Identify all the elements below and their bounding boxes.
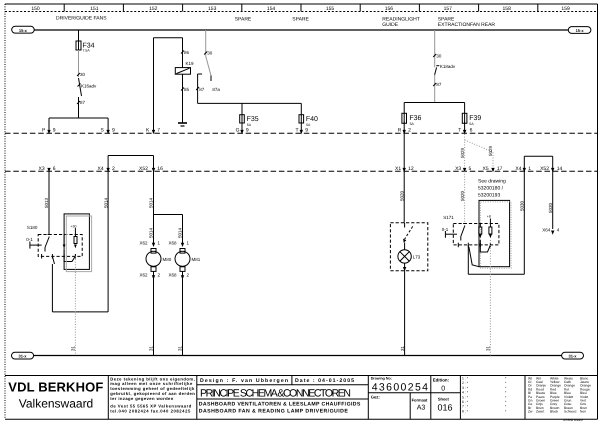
S180 switch arm bbox=[45, 235, 51, 252]
svg-text:K16adv: K16adv bbox=[81, 84, 97, 89]
svg-text:Valkenswaard: Valkenswaard bbox=[19, 397, 93, 411]
svg-text:9: 9 bbox=[246, 127, 249, 133]
svg-text:3 : *: 3 : * bbox=[462, 386, 469, 390]
svg-text:5A: 5A bbox=[469, 122, 474, 126]
wire S171 lamp U link bbox=[480, 240, 490, 252]
node X68 1 bbox=[169, 241, 190, 248]
subtitle lines bbox=[199, 401, 361, 414]
node X1 12 bbox=[395, 166, 414, 172]
svg-text:DASHBOARD VENTILATOREN & LEESL: DASHBOARD VENTILATOREN & LEESLAMP CHAUFF… bbox=[199, 401, 361, 407]
svg-text:15-x: 15-x bbox=[576, 28, 585, 33]
wire splitter to P9 and S9 bbox=[49, 118, 108, 132]
svg-text:X1: X1 bbox=[395, 166, 401, 172]
node S 9 bbox=[101, 127, 116, 134]
svg-text:2: 2 bbox=[112, 166, 115, 172]
svg-text:GUIDE: GUIDE bbox=[382, 22, 399, 28]
wire S171 output to X4-1 bbox=[468, 245, 524, 274]
wire bridge X4-1 to X52-14 bbox=[524, 156, 552, 171]
svg-text:5014: 5014 bbox=[103, 197, 108, 208]
svg-text:0: 0 bbox=[441, 385, 445, 392]
node X3 5 bbox=[455, 166, 471, 172]
svg-text:Formaat: Formaat bbox=[412, 397, 428, 402]
fuse F34 bbox=[76, 41, 95, 53]
wire 5020 X3-5 to S171 dotted bbox=[460, 171, 465, 223]
svg-text:8 : *: 8 : * bbox=[462, 409, 469, 413]
fuse F35 bbox=[240, 115, 259, 127]
S171 actuator bar bbox=[445, 231, 457, 238]
lamp L73 bbox=[398, 250, 421, 263]
svg-text:5013: 5013 bbox=[44, 197, 49, 208]
svg-text:5029: 5029 bbox=[460, 147, 465, 158]
fuse F40 bbox=[299, 115, 318, 127]
svg-text:5A: 5A bbox=[410, 122, 415, 126]
wire bridge X4-2 to X52-16 bbox=[108, 156, 153, 172]
svg-text:7.5A: 7.5A bbox=[83, 49, 91, 53]
svg-text:F36: F36 bbox=[409, 115, 421, 122]
wire 30 (F34 to K16adv) bbox=[77, 50, 86, 77]
node X68 2 bbox=[169, 273, 190, 280]
wire F40 to T9 bbox=[300, 123, 302, 132]
svg-text:X5: X5 bbox=[483, 166, 489, 172]
wire K7 to relay K19 coil bbox=[154, 38, 183, 133]
svg-text:31: 31 bbox=[486, 345, 491, 351]
svg-text:86: 86 bbox=[184, 50, 190, 55]
svg-text:31: 31 bbox=[71, 345, 76, 351]
svg-text:159: 159 bbox=[561, 6, 570, 12]
wire 87 to fuses F35 F40 bbox=[198, 74, 302, 103]
fuse F36 bbox=[402, 113, 422, 126]
svg-text:43600254: 43600254 bbox=[372, 381, 428, 393]
bus wire 15 bbox=[34, 29, 568, 31]
svg-text:Sheet: Sheet bbox=[438, 396, 450, 401]
S171 indicator lamp 2 bbox=[487, 215, 492, 239]
motor M81 bbox=[175, 249, 201, 272]
legal notice bbox=[110, 376, 195, 413]
svg-text:Edition:: Edition: bbox=[433, 377, 450, 382]
relay K19 coil bbox=[175, 61, 194, 74]
svg-text:X4: X4 bbox=[515, 166, 521, 172]
node 31 right connector pill bbox=[562, 352, 584, 359]
svg-text:16: 16 bbox=[157, 166, 163, 172]
svg-text:ter inzage gegeven worden: ter inzage gegeven worden bbox=[110, 396, 173, 401]
svg-text:5014: 5014 bbox=[149, 227, 154, 238]
svg-text:87: 87 bbox=[199, 87, 205, 92]
svg-text:5014: 5014 bbox=[178, 227, 183, 238]
node K 7 bbox=[146, 127, 160, 134]
svg-text:F35: F35 bbox=[247, 116, 259, 123]
lamp L73 box bbox=[390, 223, 427, 271]
pin 87a stub bbox=[211, 76, 220, 92]
svg-text:S171: S171 bbox=[443, 215, 454, 220]
relay K19 contact arm bbox=[206, 56, 211, 81]
wire to fuse F40 bbox=[300, 103, 302, 114]
svg-text:X3: X3 bbox=[455, 166, 461, 172]
svg-text:87: 87 bbox=[80, 100, 86, 105]
bus wire 31 bbox=[34, 355, 562, 357]
svg-text:K19: K19 bbox=[186, 61, 195, 66]
svg-text:DASHBOARD FAN & READING LAMP D: DASHBOARD FAN & READING LAMP DRIVER/GUID… bbox=[199, 409, 349, 415]
wire to M80 bbox=[149, 215, 154, 245]
wire 31 L73 to bus bbox=[400, 271, 405, 356]
svg-text:30: 30 bbox=[80, 72, 86, 77]
svg-text:X68: X68 bbox=[169, 241, 178, 246]
svg-text:SPARE: SPARE bbox=[292, 17, 309, 23]
svg-text:DRIVER/GUIDE FANS: DRIVER/GUIDE FANS bbox=[56, 16, 107, 22]
svg-text:87a: 87a bbox=[212, 87, 220, 92]
svg-text:K18adv: K18adv bbox=[440, 64, 456, 69]
svg-text:G: G bbox=[236, 127, 240, 133]
S180 terminal ticks bbox=[42, 254, 76, 259]
wire 5030 X52-14 to X64-4 bbox=[548, 171, 553, 229]
wire 5030 X4-1 to S171 bbox=[520, 171, 525, 274]
svg-text:15-x: 15-x bbox=[19, 28, 28, 33]
svg-text:Zw: Zw bbox=[528, 410, 533, 414]
wire F39 to T6 bbox=[464, 122, 466, 132]
svg-text:EXTRACTIONFAN REAR: EXTRACTIONFAN REAR bbox=[438, 22, 496, 28]
wire to fuse F35 bbox=[241, 103, 243, 114]
node T 9 bbox=[296, 127, 309, 134]
svg-text:30: 30 bbox=[207, 51, 213, 56]
wire branch to M81 bbox=[154, 215, 183, 245]
svg-text:156: 156 bbox=[385, 6, 394, 12]
svg-text:2: 2 bbox=[408, 127, 411, 133]
svg-text:See drawing: See drawing bbox=[478, 179, 506, 185]
node 15 right connector pill bbox=[568, 27, 591, 34]
design and date bbox=[200, 378, 354, 384]
svg-text:152: 152 bbox=[149, 6, 158, 12]
svg-text:31-x: 31-x bbox=[568, 354, 577, 359]
S171 module box shadow dotted bbox=[481, 202, 512, 268]
node X3 6 bbox=[39, 166, 56, 172]
svg-text:Date : 04-01-2005: Date : 04-01-2005 bbox=[295, 378, 354, 384]
svg-text:1 : *: 1 : * bbox=[462, 377, 469, 381]
svg-text:X64: X64 bbox=[542, 228, 551, 233]
svg-text:9: 9 bbox=[53, 127, 56, 133]
section label SPARE EXTRACTIONFAN REAR bbox=[438, 17, 496, 29]
wire 5029 T6 to X3-5 dotted bbox=[460, 134, 465, 171]
pin 87 terminal bbox=[196, 74, 205, 92]
svg-text:85: 85 bbox=[184, 87, 190, 92]
wire 5029 branch to X5-17 dotted bbox=[465, 140, 494, 171]
svg-text:31: 31 bbox=[178, 345, 183, 351]
svg-text:5014: 5014 bbox=[149, 197, 154, 208]
revision list bbox=[462, 377, 507, 414]
svg-text:X62: X62 bbox=[140, 273, 149, 278]
node P 9 bbox=[42, 127, 56, 134]
svg-text:153: 153 bbox=[208, 6, 217, 12]
wire 5013 X3-6 to S180 bbox=[44, 171, 49, 234]
pin 86 tick bbox=[181, 50, 190, 55]
svg-text:X3: X3 bbox=[39, 166, 45, 172]
svg-text:0-1: 0-1 bbox=[26, 237, 33, 242]
svg-text:6: 6 bbox=[470, 127, 473, 133]
pin 85 wire to ground bbox=[181, 74, 190, 122]
svg-text:+30: +30 bbox=[71, 225, 77, 229]
edition sheet bbox=[433, 377, 453, 412]
svg-text:T: T bbox=[296, 127, 299, 133]
svg-text:Noir: Noir bbox=[580, 410, 587, 414]
wire S171 box bottom link bbox=[469, 247, 479, 267]
S180 indicator lamp 2 bbox=[74, 237, 77, 249]
node 15 left connector pill bbox=[12, 26, 35, 33]
title block bbox=[5, 376, 598, 420]
wire 30 K18adv feed bbox=[433, 30, 442, 67]
wire 5014 X52-16 down bbox=[149, 171, 154, 214]
svg-text:2 : *: 2 : * bbox=[462, 381, 469, 385]
svg-text:016: 016 bbox=[438, 402, 453, 412]
motor M80 bbox=[146, 249, 172, 272]
svg-text:M80: M80 bbox=[163, 257, 172, 262]
svg-text:17: 17 bbox=[497, 166, 503, 172]
switch contact K16adv bbox=[78, 78, 98, 96]
switch S171 box bbox=[453, 224, 499, 245]
svg-text:31: 31 bbox=[400, 345, 405, 351]
svg-text:Black: Black bbox=[550, 410, 558, 414]
wire 30 relay contact feed bbox=[204, 30, 213, 56]
svg-text:5030: 5030 bbox=[548, 202, 553, 213]
dashed connector line 1 bbox=[5, 132, 598, 134]
node X5 17 bbox=[483, 166, 503, 172]
svg-text:R: R bbox=[398, 127, 402, 133]
S180 indicator lamp 1 bbox=[63, 225, 77, 249]
wire L73 to box edge bbox=[403, 263, 406, 271]
company name bbox=[8, 380, 103, 411]
svg-text:L73: L73 bbox=[413, 255, 421, 260]
svg-text:5020: 5020 bbox=[460, 190, 465, 201]
node X4 1 bbox=[515, 166, 531, 172]
wire F35 to G9 bbox=[241, 123, 243, 132]
svg-text:VDL BERKHOF: VDL BERKHOF bbox=[8, 380, 103, 395]
wire 31 S180 lamp to bus dotted bbox=[71, 256, 76, 355]
svg-text:Zwart: Zwart bbox=[536, 410, 544, 414]
node R 2 bbox=[398, 127, 412, 134]
dashed connector line 2 bbox=[5, 170, 598, 172]
wire 87 K18adv to splitter bbox=[433, 75, 442, 103]
svg-text:53200193: 53200193 bbox=[478, 193, 500, 199]
svg-text:53200180 /: 53200180 / bbox=[478, 186, 504, 192]
S171 module box bbox=[479, 200, 510, 266]
wire 31 M81 to bus bbox=[178, 271, 183, 355]
node X52 16 bbox=[139, 166, 163, 172]
svg-text:tel.040 2082424 fax.040 208242: tel.040 2082424 fax.040 2082425 bbox=[110, 408, 191, 413]
S180 lamp U link bbox=[64, 250, 75, 262]
svg-text:+8: +8 bbox=[487, 215, 491, 219]
switch S171 label bbox=[442, 215, 455, 232]
wire 5014 X4-2 down bbox=[103, 171, 108, 312]
node X62 1 bbox=[140, 241, 161, 248]
svg-text:7 : *: 7 : * bbox=[462, 405, 469, 409]
switch S180 box bbox=[38, 235, 82, 257]
svg-text:151: 151 bbox=[90, 6, 99, 12]
svg-text:9: 9 bbox=[305, 127, 308, 133]
switch contact K18adv bbox=[435, 64, 456, 75]
svg-text:M81: M81 bbox=[192, 257, 201, 262]
node X64 4 bbox=[542, 228, 560, 235]
svg-text:7: 7 bbox=[157, 127, 160, 133]
svg-text:S180: S180 bbox=[27, 225, 38, 230]
wire 31 M80 to bus bbox=[149, 271, 154, 355]
svg-text:5029: 5029 bbox=[488, 145, 493, 156]
svg-text:T: T bbox=[458, 127, 461, 133]
svg-text:31: 31 bbox=[149, 345, 154, 351]
svg-text:5 : *: 5 : * bbox=[462, 395, 469, 399]
svg-text:154: 154 bbox=[267, 6, 276, 12]
svg-text:6 : *: 6 : * bbox=[462, 400, 469, 404]
wire S180 output to X4-2 wire bbox=[52, 256, 108, 312]
node 31 left connector pill bbox=[12, 352, 34, 359]
node G 9 bbox=[236, 127, 249, 134]
svg-text:X52: X52 bbox=[139, 166, 148, 172]
svg-text:Gez:: Gez: bbox=[371, 395, 380, 400]
S171 switch arm bbox=[461, 224, 466, 241]
svg-text:87: 87 bbox=[436, 82, 442, 87]
svg-text:PRINCIPE SCHEMA &CONNECTOREN: PRINCIPE SCHEMA &CONNECTOREN bbox=[200, 387, 351, 399]
svg-text:Design : F. van Ubbergen: Design : F. van Ubbergen bbox=[200, 378, 288, 384]
section label READINGLIGHT GUIDE bbox=[382, 17, 420, 29]
S180 module box bbox=[64, 214, 89, 270]
node X52 14 bbox=[540, 166, 562, 172]
L73 switch arm bbox=[403, 223, 413, 250]
switch S180 label bbox=[26, 225, 38, 242]
svg-text:5030: 5030 bbox=[520, 200, 525, 211]
colour code table bbox=[528, 376, 591, 413]
svg-text:157: 157 bbox=[444, 6, 453, 12]
svg-text:X4: X4 bbox=[98, 166, 104, 172]
ground bbox=[178, 123, 187, 126]
wire splitter to F36 F39 bbox=[404, 103, 464, 114]
svg-text:X68: X68 bbox=[169, 273, 178, 278]
S171 indicator lamp 1 bbox=[479, 224, 482, 239]
wire 5020 R2 to lamp L73 bbox=[399, 133, 404, 223]
svg-text:6: 6 bbox=[53, 166, 56, 172]
svg-text:14: 14 bbox=[557, 166, 563, 172]
svg-text:31-x: 31-x bbox=[18, 354, 27, 359]
wire 31 S171 to bus dotted bbox=[486, 240, 491, 356]
svg-text:9: 9 bbox=[112, 127, 115, 133]
svg-text:SPARE: SPARE bbox=[235, 17, 252, 23]
wire 87 (K16adv to splitter) bbox=[77, 97, 86, 118]
svg-text:X62: X62 bbox=[140, 241, 149, 246]
S171 terminal ticks bbox=[458, 243, 490, 248]
svg-text:5: 5 bbox=[469, 166, 472, 172]
svg-text:155: 155 bbox=[326, 6, 335, 12]
drawing number bbox=[371, 376, 428, 411]
svg-text:F40: F40 bbox=[306, 116, 318, 123]
S180 module box shadow bbox=[66, 216, 91, 272]
S180 actuator bar bbox=[30, 242, 42, 249]
note see drawing bbox=[478, 179, 506, 199]
node X4 2 bbox=[98, 166, 116, 172]
svg-text:5020: 5020 bbox=[399, 190, 404, 201]
fuse F39 bbox=[462, 113, 481, 126]
svg-text:150: 150 bbox=[31, 6, 40, 12]
svg-text:A3: A3 bbox=[417, 405, 426, 412]
svg-text:Schwarz: Schwarz bbox=[564, 410, 577, 414]
node T 6 bbox=[458, 127, 472, 134]
svg-text:4 : *: 4 : * bbox=[462, 391, 469, 395]
ruler band top bbox=[5, 4, 598, 12]
svg-text:30: 30 bbox=[436, 53, 442, 58]
svg-text:158: 158 bbox=[503, 6, 512, 12]
svg-text:12: 12 bbox=[408, 166, 414, 172]
node X62 2 bbox=[140, 273, 161, 280]
svg-text:X52: X52 bbox=[540, 166, 549, 172]
svg-text:Drawing No:: Drawing No: bbox=[371, 376, 392, 380]
svg-text:1: 1 bbox=[528, 166, 531, 172]
wire bus15 to fuse F34 bbox=[78, 30, 80, 41]
wire F36 to R2 bbox=[403, 122, 405, 132]
svg-text:F39: F39 bbox=[469, 115, 481, 122]
